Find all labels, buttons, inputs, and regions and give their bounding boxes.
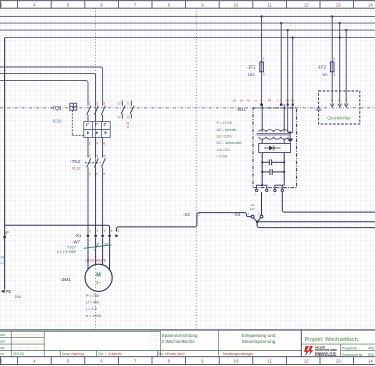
svg-text:4: 4 xyxy=(96,142,98,146)
svg-text:-X3: -X3 xyxy=(234,212,241,217)
svg-text:U = 400: U = 400 xyxy=(86,301,99,305)
svg-text:2: 2 xyxy=(97,229,99,233)
svg-text:4: 4 xyxy=(111,229,113,233)
svg-text:N: N xyxy=(260,100,262,103)
svg-text:1: 1 xyxy=(89,154,91,158)
svg-text:2: 2 xyxy=(89,172,91,176)
svg-text:10: 10 xyxy=(234,2,239,7)
svg-text:tum: tum xyxy=(0,333,6,337)
svg-text:6: 6 xyxy=(103,142,105,146)
svg-text:903: 903 xyxy=(368,353,374,357)
svg-text:16: 16 xyxy=(0,256,4,260)
svg-text:2N: 2N xyxy=(240,100,243,103)
svg-text:-X1: -X1 xyxy=(75,233,82,238)
svg-text:22: 22 xyxy=(126,115,130,119)
svg-text:Up=230V: Up=230V xyxy=(217,134,233,138)
svg-text:PE: PE xyxy=(286,100,290,103)
svg-text:arb.: arb. xyxy=(0,340,6,344)
svg-text:14: 14 xyxy=(368,2,373,7)
svg-text:DC - sekundär:: DC - sekundär: xyxy=(217,141,243,145)
svg-text:16A: 16A xyxy=(15,295,22,299)
svg-text:Projekt: Wechseltisch: Projekt: Wechseltisch xyxy=(305,337,358,343)
svg-text:Projekt Nr. :: Projekt Nr. : xyxy=(342,346,360,350)
svg-text:Gleichrichter: Gleichrichter xyxy=(327,115,351,120)
svg-text:+: + xyxy=(255,192,257,196)
svg-text:2: 2 xyxy=(333,57,335,61)
svg-text:U1|V1|W1|PE: U1|V1|W1|PE xyxy=(85,259,106,263)
svg-text:1,5: 1,5 xyxy=(0,261,5,265)
svg-text:4: 4 xyxy=(96,172,98,176)
svg-text:Ersatz für: Ersatz für xyxy=(109,352,124,356)
svg-text:1: 1 xyxy=(248,212,250,216)
svg-text:PE: PE xyxy=(105,242,109,246)
svg-text:1: 1 xyxy=(89,102,91,106)
svg-text:Zeichnung Nr:: Zeichnung Nr: xyxy=(342,353,363,357)
svg-text:2: 2 xyxy=(263,57,265,61)
svg-text:-W7: -W7 xyxy=(72,240,81,245)
svg-text:10: 10 xyxy=(234,359,239,364)
svg-text:PE: PE xyxy=(291,100,295,103)
svg-text:-7K2: -7K2 xyxy=(70,159,80,165)
svg-text:-: - xyxy=(281,192,282,196)
svg-text:3: 3 xyxy=(263,72,265,76)
svg-text:N: N xyxy=(280,100,282,103)
svg-text:11: 11 xyxy=(267,2,272,7)
svg-text:13: 13 xyxy=(336,359,341,364)
svg-text:3: 3 xyxy=(96,154,98,158)
svg-text:5 x 2,5 MM²: 5 x 2,5 MM² xyxy=(57,250,77,254)
svg-text:5: 5 xyxy=(103,154,105,158)
svg-text:Steuerspannung: Steuerspannung xyxy=(242,339,276,344)
svg-text:09.9.08: 09.9.08 xyxy=(13,352,24,356)
svg-text:Ers. f: Ers. f xyxy=(98,352,106,356)
svg-text:3~: 3~ xyxy=(96,280,101,285)
svg-text:rm: rm xyxy=(0,352,4,356)
svg-text:-: - xyxy=(265,192,266,196)
svg-text:/9.12: /9.12 xyxy=(72,167,80,171)
svg-text:6: 6 xyxy=(103,172,105,176)
svg-text:Ursprung: Ursprung xyxy=(71,352,84,356)
svg-text:Us=24V: Us=24V xyxy=(217,148,231,152)
svg-text:3: 3 xyxy=(333,72,335,76)
svg-text:-9G1: -9G1 xyxy=(236,107,246,112)
svg-text:14: 14 xyxy=(368,359,373,364)
svg-text:AC - primär:: AC - primär: xyxy=(217,128,237,132)
svg-text:PE: PE xyxy=(268,100,272,103)
svg-text:I s=5A: I s=5A xyxy=(217,154,228,158)
svg-text:Schaltungsunterlagen: Schaltungsunterlagen xyxy=(223,352,254,356)
svg-text:-2M1: -2M1 xyxy=(60,277,71,283)
svg-text:5: 5 xyxy=(103,102,105,106)
svg-text:P: P xyxy=(127,126,129,130)
svg-text:1: 1 xyxy=(89,229,91,233)
svg-text:3: 3 xyxy=(96,102,98,106)
svg-text:3: 3 xyxy=(104,229,106,233)
svg-text:n = 1400: n = 1400 xyxy=(86,314,101,318)
svg-text:21: 21 xyxy=(126,102,130,106)
svg-text:I = 1,9: I = 1,9 xyxy=(86,307,97,311)
svg-text:P = 750: P = 750 xyxy=(86,294,99,298)
svg-text:Ers. d: Ers. d xyxy=(158,352,167,356)
svg-text:-X3: -X3 xyxy=(183,212,190,217)
svg-text:2: 2 xyxy=(198,212,200,216)
svg-text:M: M xyxy=(96,273,101,279)
svg-text:epr.: epr. xyxy=(0,346,6,350)
svg-text:5: 5 xyxy=(117,229,119,233)
svg-text:PE: PE xyxy=(6,289,12,294)
svg-text:24V: 24V xyxy=(250,207,255,211)
svg-text:-7Q1: -7Q1 xyxy=(51,106,62,112)
svg-text:14: 14 xyxy=(117,115,121,119)
svg-text:12: 12 xyxy=(304,359,309,364)
svg-text:4P0: 4P0 xyxy=(368,346,374,350)
svg-text:+: + xyxy=(273,192,275,196)
svg-text:2L1: 2L1 xyxy=(233,100,238,103)
svg-text:13: 13 xyxy=(336,2,341,7)
svg-text:11: 11 xyxy=(267,359,272,364)
svg-text:-X0: -X0 xyxy=(315,107,322,112)
svg-text:12: 12 xyxy=(304,2,309,7)
svg-text:Ersatz durch: Ersatz durch xyxy=(167,352,185,356)
svg-text:16A: 16A xyxy=(248,72,256,77)
svg-text:2: 2 xyxy=(89,142,91,146)
svg-text:-1F2: -1F2 xyxy=(317,64,327,69)
svg-text:P =120W: P =120W xyxy=(217,121,233,125)
svg-text:13: 13 xyxy=(117,102,121,106)
svg-text:Einspeisung und: Einspeisung und xyxy=(242,333,276,338)
svg-text:PE: PE xyxy=(247,100,251,103)
svg-text:6A: 6A xyxy=(323,72,328,77)
svg-text:D-58256 Ennepetal: D-58256 Ennepetal xyxy=(315,354,337,357)
svg-text:-1F1: -1F1 xyxy=(247,64,257,69)
svg-text:YSLY: YSLY xyxy=(67,245,77,249)
svg-text:2: 2 xyxy=(258,212,260,216)
svg-text:2 Wechseltische: 2 Wechseltische xyxy=(162,339,196,344)
svg-text:Urspr.: Urspr. xyxy=(62,352,71,356)
svg-text:Spannvorrichtung: Spannvorrichtung xyxy=(162,333,198,338)
svg-text:6,3A: 6,3A xyxy=(53,119,62,124)
svg-text:0V: 0V xyxy=(251,203,255,207)
